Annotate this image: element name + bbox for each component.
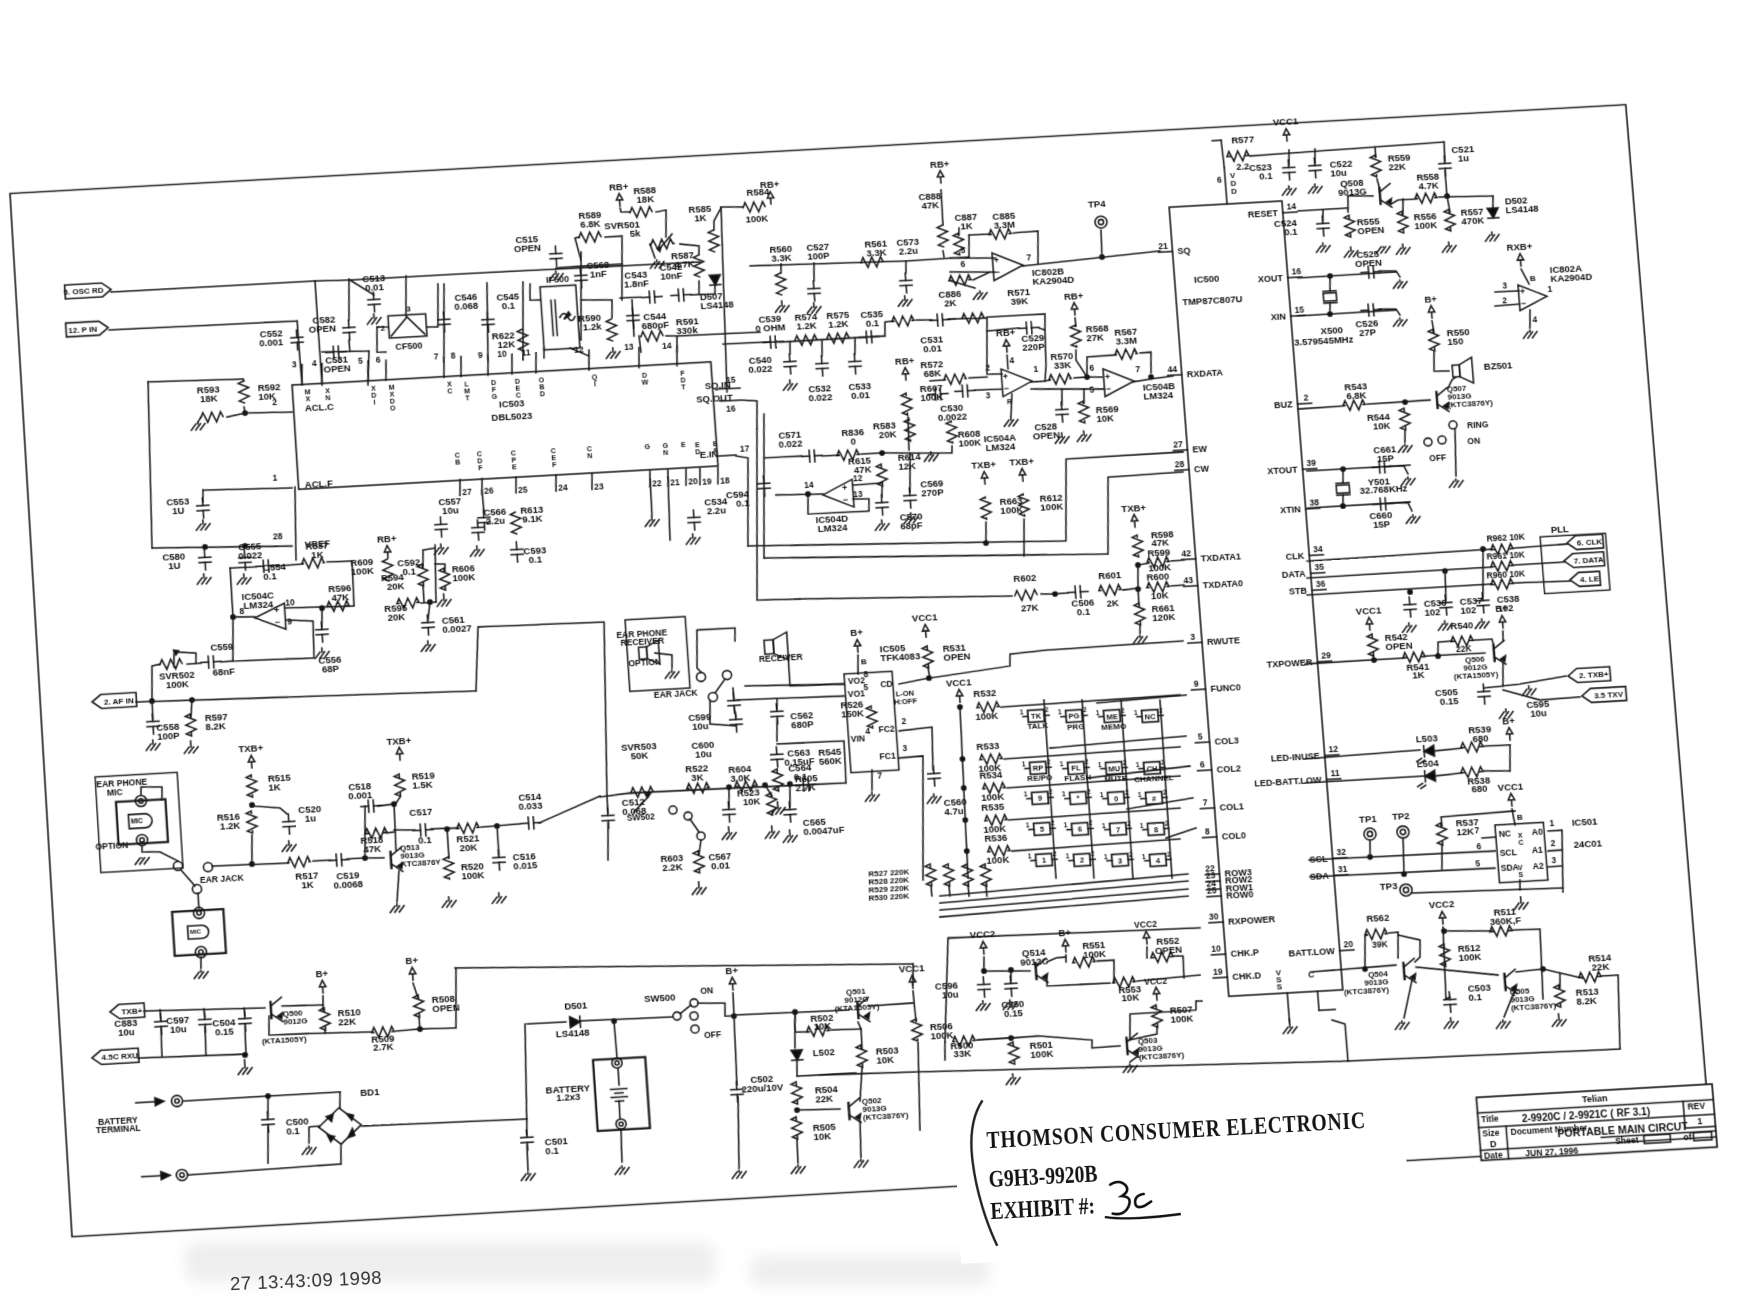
R567 label bbox=[1114, 325, 1138, 346]
svg-text:100K: 100K bbox=[1414, 219, 1438, 231]
net tag 12. P IN bbox=[66, 321, 109, 337]
ground mic lower bbox=[194, 970, 209, 979]
capacitor C566 elec bbox=[471, 520, 484, 541]
svg-text:H:OFF: H:OFF bbox=[894, 696, 918, 706]
wire Q513 collector bbox=[393, 803, 397, 850]
wire SQ vertical bbox=[714, 207, 734, 392]
ground R590 bbox=[606, 348, 621, 359]
svg-text:B+: B+ bbox=[1495, 603, 1509, 615]
svg-text:RB+: RB+ bbox=[609, 181, 630, 193]
ground C522 bbox=[1308, 184, 1323, 194]
svg-text:R: R bbox=[1007, 399, 1013, 406]
wire R558 right bbox=[1439, 194, 1493, 199]
svg-text:9012G: 9012G bbox=[283, 1017, 308, 1028]
svg-text:XTIN: XTIN bbox=[1280, 504, 1301, 515]
R544 label bbox=[1367, 411, 1392, 432]
pin 1 label IC504A bbox=[1033, 364, 1039, 374]
svg-text:4.7u: 4.7u bbox=[944, 805, 964, 817]
IC505 FC1 name bbox=[879, 751, 896, 762]
wire jack lever bbox=[714, 679, 726, 693]
C560 label bbox=[943, 796, 967, 817]
resistor R537 12K bbox=[1436, 823, 1448, 846]
svg-text:EXHIBIT #:: EXHIBIT #: bbox=[990, 1191, 1096, 1224]
capacitor trimmer C600 bbox=[729, 712, 742, 733]
wire L502 column bbox=[792, 1012, 797, 1048]
svg-text:SW500: SW500 bbox=[644, 991, 676, 1004]
ground C537 bbox=[1438, 621, 1453, 631]
D501 part bbox=[556, 1027, 590, 1040]
resistor R575 bbox=[827, 333, 850, 344]
svg-text:1: 1 bbox=[1042, 856, 1047, 865]
SVR502 label bbox=[159, 669, 196, 691]
switch SW500 contact bbox=[690, 1012, 699, 1021]
ground C534 bbox=[686, 534, 701, 545]
wire R960 to PLL bbox=[1514, 580, 1570, 584]
svg-text:IC501: IC501 bbox=[1571, 815, 1597, 828]
svg-text:47K: 47K bbox=[363, 842, 382, 854]
wire C544 vertical bbox=[632, 300, 635, 336]
terminal arrow bottom bbox=[142, 1171, 171, 1181]
transistor Q513 KTC3876Y bbox=[390, 847, 403, 872]
potentiometer SVR503 bbox=[631, 786, 654, 797]
wire C582 stub bbox=[346, 279, 351, 320]
R577 value bbox=[1236, 161, 1250, 173]
capacitor C534 elec bbox=[687, 510, 700, 531]
ground BD1 bbox=[302, 1146, 317, 1155]
capacitor C513 label bbox=[362, 272, 386, 293]
capacitor C561 0.0027 bbox=[421, 615, 434, 636]
svg-text:CF500: CF500 bbox=[395, 340, 423, 351]
svg-text:2.2u: 2.2u bbox=[485, 514, 505, 526]
svg-text:14: 14 bbox=[662, 340, 672, 351]
resistor R607 100K bbox=[901, 393, 913, 415]
svg-text:(KTC3876Y): (KTC3876Y) bbox=[1343, 985, 1389, 997]
wire pin10 right bbox=[285, 604, 354, 610]
svg-text:OPEN: OPEN bbox=[943, 650, 971, 663]
resistor R609 label bbox=[350, 556, 374, 577]
LED L504 bbox=[1417, 770, 1436, 788]
IC500 pin 21 SQ bbox=[1158, 240, 1191, 258]
svg-text:A2: A2 bbox=[1532, 861, 1544, 872]
IC503 pin 17 bbox=[717, 444, 750, 457]
resistor R529 220K bbox=[962, 864, 974, 887]
capacitor C571 0.022 bbox=[802, 449, 823, 462]
wire SQ to pin 21 bbox=[1022, 251, 1160, 266]
wire R612 bottom bbox=[1021, 519, 1026, 556]
R516 label bbox=[216, 811, 240, 832]
wire Q503 emitter bbox=[1130, 1056, 1139, 1062]
wire R516 bottom bbox=[250, 835, 254, 864]
wire C885 loop bbox=[969, 234, 991, 235]
wire C518 loop vert bbox=[362, 806, 369, 858]
svg-text:+: + bbox=[842, 483, 848, 493]
wire IC504D output bbox=[776, 492, 823, 496]
IC500 pin 35 DATA bbox=[1281, 562, 1325, 580]
wire C512 drop bbox=[607, 797, 608, 813]
junction node6 bbox=[1085, 375, 1090, 379]
wire R594 wiring bbox=[422, 548, 436, 567]
svg-text:0.1: 0.1 bbox=[263, 570, 277, 582]
svg-text:50K: 50K bbox=[630, 749, 649, 761]
transistor Q508 9013G bbox=[1379, 184, 1392, 208]
capacitor C573 label bbox=[896, 235, 920, 256]
wire C561 top bbox=[427, 602, 431, 620]
svg-text:1.2x3: 1.2x3 bbox=[556, 1090, 581, 1103]
scan smudge bottom right bbox=[750, 1256, 990, 1286]
IC500 pin 30 RXPOWER bbox=[1208, 908, 1276, 928]
ground R520 bbox=[442, 897, 457, 908]
R502 label bbox=[810, 1011, 834, 1032]
resistor R574 bbox=[795, 335, 818, 346]
wire Q502 collector bbox=[858, 1068, 865, 1101]
svg-text:RXB+: RXB+ bbox=[1506, 241, 1533, 253]
wire Q508 base down bbox=[1347, 196, 1349, 212]
svg-text:1K: 1K bbox=[268, 781, 281, 793]
wire R550 to buzzer bbox=[1433, 351, 1449, 372]
Y501 label bbox=[1367, 476, 1390, 488]
wire R540 loop bbox=[1437, 641, 1453, 656]
wire Y501 bottom bbox=[1342, 495, 1344, 506]
wire FC2 to C560 bbox=[899, 727, 935, 772]
capacitor C528 OPEN bbox=[1055, 402, 1068, 422]
svg-text:2: 2 bbox=[1045, 707, 1050, 714]
key switch 8 bbox=[1139, 820, 1169, 836]
svg-text:2.2K: 2.2K bbox=[662, 861, 683, 873]
IC503 pin 20 bbox=[681, 442, 698, 488]
resistor R503 10K bbox=[856, 1045, 868, 1068]
test point TP2 bbox=[1396, 826, 1409, 839]
IC503 pin 19 bbox=[695, 441, 713, 487]
IC500 pin 6 VDD bbox=[1216, 167, 1238, 204]
wire OSC RD rail to top bbox=[315, 260, 700, 283]
svg-text:14: 14 bbox=[804, 480, 815, 491]
key switch ME bbox=[1095, 707, 1125, 723]
svg-text:VCC1: VCC1 bbox=[945, 676, 971, 688]
junction R600 bbox=[1136, 587, 1141, 591]
R537 label bbox=[1455, 816, 1479, 837]
IC500 pin 6 COL2 bbox=[1197, 757, 1241, 776]
resistor R562 39K bbox=[1365, 928, 1388, 939]
wire R598 R600 column bbox=[1136, 565, 1139, 589]
wire ROW1 bus bbox=[939, 889, 1188, 910]
wire Q504 to Q505 bbox=[1416, 962, 1498, 979]
R661 label bbox=[1151, 602, 1176, 623]
power tag TXB+ R515 bbox=[238, 742, 265, 768]
resistor R587 label bbox=[671, 249, 695, 270]
R562 label bbox=[1366, 911, 1390, 923]
svg-text:2: 2 bbox=[1089, 820, 1094, 827]
SVR501 wiper arrow bbox=[656, 234, 673, 252]
wire R595 right bbox=[421, 602, 436, 603]
svg-text:1: 1 bbox=[1062, 792, 1067, 799]
svg-text:D: D bbox=[1490, 1139, 1498, 1150]
net tag 2. TXB+ bbox=[1567, 667, 1610, 683]
wire R508 top bbox=[413, 983, 418, 998]
resistor R613 label bbox=[520, 503, 544, 524]
IC500 pin 19 CHK.D bbox=[1212, 964, 1262, 983]
svg-text:RB+: RB+ bbox=[760, 179, 781, 191]
IC500 pin 31 SDA bbox=[1309, 864, 1349, 882]
svg-text:102: 102 bbox=[1460, 604, 1477, 616]
wire Q505 emitter bbox=[1502, 992, 1516, 1017]
svg-text:LS4148: LS4148 bbox=[556, 1027, 590, 1040]
resistor R507 100K bbox=[1151, 1005, 1163, 1028]
svg-text:C: C bbox=[516, 392, 522, 399]
wire R503 top bbox=[861, 1029, 863, 1049]
capacitor C573 elec bbox=[899, 273, 912, 293]
svg-text:27: 27 bbox=[1173, 439, 1184, 450]
wire R540 right bbox=[1474, 639, 1494, 647]
wire IC501 pin4 stub bbox=[1519, 880, 1521, 890]
ground R556 bbox=[1396, 244, 1411, 255]
title block bbox=[1476, 1084, 1717, 1161]
IC500 pin 42 TXDATA1 bbox=[1181, 545, 1242, 564]
svg-text:100K: 100K bbox=[975, 709, 999, 721]
IC503 pin 9 bbox=[478, 349, 498, 402]
wire R527 bottom bbox=[930, 886, 933, 896]
svg-text:TXB+: TXB+ bbox=[1121, 501, 1147, 513]
junction C506 bbox=[1053, 592, 1058, 596]
R557 label bbox=[1460, 206, 1484, 227]
svg-text:10u: 10u bbox=[941, 988, 959, 1000]
wire R577 to VDD column bbox=[1212, 139, 1221, 141]
wire C558 top bbox=[152, 701, 153, 719]
svg-text:RP: RP bbox=[1033, 764, 1044, 774]
IC500 pin 34 CLK bbox=[1285, 544, 1324, 562]
svg-text:2: 2 bbox=[1550, 838, 1556, 848]
IC500 pin 32 SCL bbox=[1309, 847, 1348, 865]
IC500 pin 25 ROW0 bbox=[1206, 883, 1254, 902]
svg-text:9: 9 bbox=[1038, 794, 1043, 803]
mic lower ring top bbox=[193, 907, 205, 919]
capacitor C546 label bbox=[453, 290, 478, 311]
svg-text:21: 21 bbox=[1158, 241, 1169, 251]
wire C565 top bbox=[788, 784, 791, 807]
svg-text:B: B bbox=[455, 460, 461, 467]
power tag B+ Q514 bbox=[1058, 926, 1073, 952]
capacitor C536 102 bbox=[1403, 597, 1417, 618]
wire C524 top bbox=[1322, 210, 1324, 221]
svg-text:DBL5023: DBL5023 bbox=[491, 410, 533, 423]
ground C561 bbox=[421, 641, 436, 652]
svg-text:VCC2: VCC2 bbox=[1134, 919, 1158, 930]
C502 label bbox=[741, 1072, 785, 1095]
capacitor C559 68nF bbox=[201, 655, 222, 668]
capacitor C564 0.1 bbox=[796, 778, 817, 791]
svg-text:10u: 10u bbox=[442, 504, 459, 516]
IC503 ACL.C pin name bbox=[304, 400, 334, 413]
battery terminal bottom ring bbox=[616, 1119, 627, 1130]
ground C660 bbox=[1406, 515, 1421, 524]
svg-text:20K: 20K bbox=[386, 580, 404, 592]
svg-text:22K: 22K bbox=[1591, 960, 1610, 972]
svg-text:220u/10V: 220u/10V bbox=[741, 1081, 784, 1095]
svg-text:2: 2 bbox=[1123, 759, 1128, 766]
key MEMO sublabel bbox=[1101, 721, 1127, 731]
svg-text:0.0027: 0.0027 bbox=[442, 622, 472, 635]
IC504D label bbox=[815, 512, 849, 534]
resistor R516 1.2K bbox=[246, 811, 257, 834]
svg-text:B+: B+ bbox=[1058, 926, 1072, 938]
wire IC501 right pins bbox=[1548, 830, 1567, 893]
svg-text:100K: 100K bbox=[166, 678, 190, 690]
wire C529 left bbox=[984, 328, 1023, 375]
ear jack mic contact 2 bbox=[192, 884, 202, 894]
power tag B+ main bbox=[725, 964, 740, 990]
wire R600 to pin43 bbox=[1171, 585, 1184, 586]
R556 label bbox=[1413, 210, 1437, 231]
wire R513 top bbox=[1543, 968, 1561, 989]
wire BD1 bottom bbox=[340, 1145, 342, 1164]
net tag 5. OSC RD bbox=[63, 283, 111, 299]
C529 label bbox=[1021, 331, 1045, 352]
ear phone receiver option box bbox=[625, 617, 690, 692]
wire C886 to in- bbox=[973, 272, 991, 280]
R570 label bbox=[1050, 350, 1074, 371]
capacitor C557 elec bbox=[434, 517, 447, 538]
svg-text:22K: 22K bbox=[1388, 161, 1406, 173]
PLL label bbox=[1550, 523, 1569, 535]
wire IC504D feedback bbox=[807, 491, 870, 515]
IC500 pin 7 COL1 bbox=[1200, 795, 1245, 814]
svg-text:43: 43 bbox=[1183, 575, 1194, 586]
wire C529 right bbox=[1039, 328, 1049, 381]
svg-text:G9H3-9920B: G9H3-9920B bbox=[988, 1159, 1098, 1192]
resistor R523 10K bbox=[766, 793, 778, 816]
svg-text:*: * bbox=[1076, 794, 1080, 803]
wire E.IN channel bbox=[736, 455, 754, 546]
power tag B+ Q506 bbox=[1495, 603, 1510, 629]
wire LED-INUSE row bbox=[1305, 750, 1420, 759]
capacitor C519 0.0068 bbox=[329, 853, 350, 866]
capacitor C553 bbox=[196, 498, 209, 519]
svg-text:F: F bbox=[478, 466, 483, 473]
svg-text:PLL: PLL bbox=[1550, 523, 1569, 535]
svg-text:OPEN: OPEN bbox=[1154, 943, 1182, 956]
wire R573 to C531 bbox=[916, 319, 932, 321]
wire C516 top bbox=[497, 826, 499, 855]
wire R589 right bbox=[605, 236, 626, 301]
resistor R568 27K bbox=[1070, 325, 1082, 347]
svg-text:SDA: SDA bbox=[1309, 871, 1329, 882]
IC505 VO2 name bbox=[847, 675, 865, 686]
IC503 pin 12 bbox=[574, 344, 599, 390]
svg-text:35: 35 bbox=[1314, 562, 1325, 573]
transistor Q504 KTC3876Y bbox=[1403, 958, 1416, 983]
R541 label bbox=[1406, 660, 1430, 680]
wire R538 right bbox=[1484, 770, 1510, 773]
wire CLK row bbox=[1307, 549, 1492, 561]
R505 label bbox=[812, 1121, 836, 1143]
C595 label bbox=[1526, 698, 1550, 719]
resistor R508 OPEN bbox=[413, 995, 425, 1018]
svg-text:0.01: 0.01 bbox=[923, 342, 942, 354]
svg-text:28: 28 bbox=[1174, 459, 1185, 470]
svg-text:VCC1: VCC1 bbox=[912, 611, 938, 623]
junction RXU gnd bbox=[243, 1053, 248, 1057]
capacitor C558 100P bbox=[146, 714, 159, 735]
IC500 pin 12 LED-INUSE bbox=[1270, 744, 1339, 764]
wire COL3 bbox=[1050, 736, 1187, 748]
net tag 6. CLK bbox=[1566, 534, 1603, 550]
resistor R608 100K bbox=[946, 421, 958, 443]
svg-text:BUZ: BUZ bbox=[1274, 399, 1294, 410]
svg-text:BD1: BD1 bbox=[360, 1086, 380, 1098]
mic jack ring top bbox=[135, 795, 147, 807]
IC503 part number bbox=[491, 410, 533, 423]
IC503 pin 6 bbox=[376, 354, 397, 414]
svg-text:I: I bbox=[373, 400, 375, 407]
svg-text:6: 6 bbox=[960, 259, 966, 269]
resistor R561 bbox=[861, 257, 884, 268]
capacitor C540 label bbox=[748, 354, 773, 375]
wire C553 stub bbox=[202, 490, 203, 502]
C886 label bbox=[938, 287, 962, 308]
exhibit sticker bbox=[952, 1068, 1411, 1264]
junction X500 top bbox=[1328, 274, 1333, 278]
C518 label bbox=[347, 780, 372, 801]
R519 label bbox=[411, 770, 435, 791]
wire C537 top bbox=[1444, 571, 1448, 600]
svg-text:0: 0 bbox=[850, 436, 856, 447]
svg-text:3: 3 bbox=[1502, 281, 1508, 291]
svg-text:100K: 100K bbox=[986, 853, 1010, 865]
wire ACL loop left bbox=[142, 382, 158, 548]
svg-text:0.01: 0.01 bbox=[851, 389, 870, 401]
wire mic lower up bbox=[198, 893, 199, 908]
IC500 pin 16 XOUT bbox=[1257, 266, 1302, 284]
ground C520 bbox=[282, 841, 297, 852]
svg-text:680: 680 bbox=[1471, 782, 1488, 794]
resistor R531 OPEN bbox=[922, 646, 934, 668]
svg-text:10K: 10K bbox=[1096, 412, 1114, 424]
svg-text:OPEN: OPEN bbox=[1357, 224, 1385, 236]
mic text bbox=[107, 786, 123, 797]
wire RXB+ down bbox=[1521, 269, 1529, 285]
wire R517 to C519 bbox=[313, 860, 331, 861]
svg-text:470K: 470K bbox=[1461, 215, 1485, 227]
ceramic filter CF500 bbox=[379, 304, 428, 352]
wire R500 right bbox=[977, 1038, 1008, 1040]
wire R520 top bbox=[447, 829, 449, 858]
svg-text:7: 7 bbox=[877, 771, 883, 781]
ground IC504A pin11 bbox=[1004, 417, 1019, 427]
battery terminal top ring bbox=[612, 1058, 623, 1069]
svg-text:2K: 2K bbox=[944, 297, 957, 309]
R511 label bbox=[1489, 905, 1522, 927]
svg-text:B+: B+ bbox=[1424, 293, 1438, 305]
resistor R612 100K bbox=[1018, 494, 1030, 516]
transistor Q505 KTC3876Y bbox=[1504, 969, 1517, 994]
svg-text:2: 2 bbox=[1125, 789, 1130, 796]
junction R540 left bbox=[1436, 654, 1441, 658]
C565 label bbox=[802, 815, 845, 837]
ground R605 bbox=[770, 802, 785, 815]
wire C885 left tap bbox=[967, 235, 970, 258]
resistor R609 bbox=[382, 559, 393, 581]
svg-text:0.001: 0.001 bbox=[259, 336, 284, 348]
svg-text:EW: EW bbox=[1192, 444, 1208, 455]
svg-text:18K: 18K bbox=[200, 392, 218, 404]
svg-text:2.2: 2.2 bbox=[1236, 161, 1250, 173]
svg-text:27P: 27P bbox=[1359, 326, 1377, 338]
svg-text:120K: 120K bbox=[1152, 611, 1176, 623]
wire B+ R510 bbox=[322, 996, 324, 1010]
resistor R543 6.8K bbox=[1343, 400, 1366, 411]
svg-text:3: 3 bbox=[1551, 855, 1557, 865]
svg-text:1K: 1K bbox=[301, 879, 314, 891]
ear jack mic contact 1 bbox=[173, 861, 183, 871]
